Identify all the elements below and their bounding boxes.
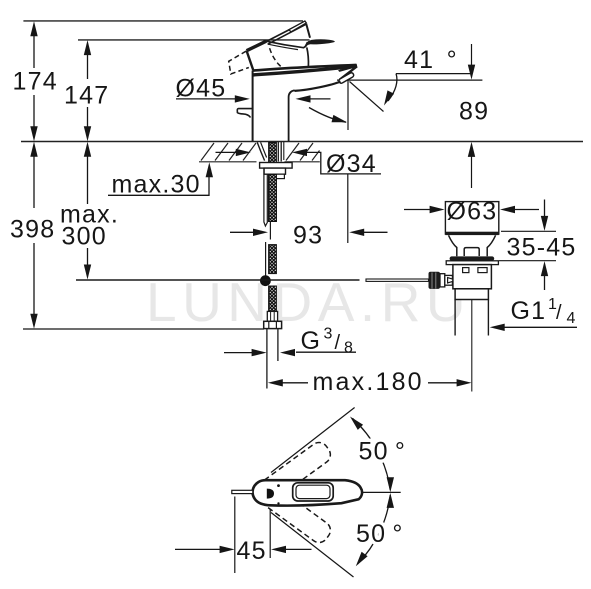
svg-text:35-45: 35-45 xyxy=(507,234,577,262)
svg-text:max.180: max.180 xyxy=(313,368,424,396)
35-45 extension bottom xyxy=(499,260,556,262)
hose end connector xyxy=(267,311,277,321)
arrow max.300 top xyxy=(84,142,91,157)
max180 dimension right xyxy=(428,382,463,384)
arrow 89 bottom xyxy=(468,142,475,157)
dia34 right shaft + notch xyxy=(306,152,382,174)
lever tip sliver xyxy=(289,21,306,32)
35-45 extension top xyxy=(501,230,556,232)
deck / counter top line xyxy=(21,141,583,143)
max180 dimension left xyxy=(276,382,308,384)
svg-text:Ø34: Ø34 xyxy=(326,150,377,178)
counter bottom line left xyxy=(199,161,257,163)
handle joint upper line xyxy=(253,65,357,71)
svg-text:41 °: 41 ° xyxy=(404,46,458,74)
top view handle body xyxy=(253,480,363,505)
drain cap bottom band xyxy=(445,232,498,235)
drain cap xyxy=(445,202,498,235)
drain neck xyxy=(449,235,496,256)
arrow dia34 right xyxy=(292,149,307,156)
handle base left edge xyxy=(247,51,254,71)
clamp pointer xyxy=(448,278,457,283)
top view pin xyxy=(232,490,253,493)
aerator capsule xyxy=(338,72,354,84)
41deg leader curve xyxy=(388,74,397,101)
arrow 45 right xyxy=(271,546,286,553)
45 extension right xyxy=(269,509,271,558)
dashed handle alternate position left xyxy=(229,51,249,74)
top view: horizontal ray xyxy=(361,491,401,493)
arrow 41deg leader xyxy=(384,90,394,105)
spout tip wedge xyxy=(338,64,357,72)
top view: upper 50 ray xyxy=(271,408,355,473)
svg-text:300: 300 xyxy=(62,223,107,251)
pop-up rod right section xyxy=(366,279,429,281)
hose core line xyxy=(269,222,271,240)
arrow G1 1/4 xyxy=(490,324,505,331)
35-45 bottom shaft xyxy=(544,275,546,291)
svg-text:4: 4 xyxy=(567,310,577,327)
45 right shaft xyxy=(285,548,312,550)
dashed handle alternate arc right xyxy=(270,48,284,69)
pop-up rod left section xyxy=(76,279,360,281)
dimension 398 line xyxy=(33,155,35,315)
41deg arc xyxy=(309,108,346,123)
45 left shaft xyxy=(175,548,222,550)
drain tailpipe walls xyxy=(454,300,456,336)
faucet body left edge xyxy=(252,71,254,142)
hex nut G3/8 xyxy=(264,321,282,328)
dimension 174 line xyxy=(33,34,35,128)
shank left bend curves xyxy=(257,142,264,160)
89 bottom shaft xyxy=(471,155,473,188)
spout underside curve xyxy=(295,82,341,91)
svg-text:Ø63: Ø63 xyxy=(447,198,498,226)
arrow 398 top xyxy=(30,142,37,157)
faucet body right edge xyxy=(289,90,295,141)
arrow 35-45 bottom xyxy=(541,261,548,276)
35-45 top shaft xyxy=(544,200,546,218)
arrow dia45 left xyxy=(235,95,250,102)
93 left shaft xyxy=(230,231,254,233)
93 right shaft xyxy=(363,231,388,233)
svg-text:G1: G1 xyxy=(511,297,547,325)
drain centerline xyxy=(471,300,473,392)
svg-text:93: 93 xyxy=(293,222,323,250)
svg-text:147: 147 xyxy=(64,82,109,110)
G3/8 left shaft xyxy=(224,352,253,354)
spout outlet extension line xyxy=(337,79,482,81)
handle base top edge xyxy=(266,41,307,48)
drain gasket bar xyxy=(450,256,495,260)
top view dark spot xyxy=(267,489,274,499)
svg-text:50 °: 50 ° xyxy=(356,520,404,548)
svg-text:89: 89 xyxy=(459,98,489,126)
arrow dia63 right xyxy=(500,206,515,213)
arrow 174 top xyxy=(30,21,37,36)
supply tube behind xyxy=(264,169,267,226)
drain flange xyxy=(446,261,498,265)
dimension 89 line top xyxy=(471,44,473,67)
svg-text:8: 8 xyxy=(344,340,354,357)
svg-text:/: / xyxy=(556,302,563,324)
svg-text:/: / xyxy=(335,332,342,354)
spout top edge xyxy=(253,66,357,75)
dia45 right shaft xyxy=(309,98,331,100)
supply tube G3/8 right wall xyxy=(277,329,279,361)
knurled adjuster knob xyxy=(429,272,441,289)
drain body lower xyxy=(455,289,488,300)
handle base right edge xyxy=(307,48,309,67)
arrow max.30 xyxy=(206,162,213,177)
pivot ball xyxy=(260,275,271,286)
arrow 398 bottom xyxy=(30,314,37,329)
svg-text:398: 398 xyxy=(10,216,55,244)
counter hatching right xyxy=(286,143,320,161)
arrow dia45 right xyxy=(296,95,311,102)
arrow G3/8 right xyxy=(280,349,295,356)
dia63 left shaft xyxy=(404,209,431,211)
lever end face xyxy=(306,24,310,38)
arrow G3/8 left xyxy=(252,349,267,356)
drain body slots xyxy=(463,268,469,273)
arrow 93 right xyxy=(349,229,364,236)
arrow dia34 left xyxy=(236,149,251,156)
45 extension left xyxy=(234,497,236,574)
supply tube G3/8 left wall xyxy=(266,329,268,389)
spout nose return edge xyxy=(340,66,357,79)
dimension 147 line xyxy=(87,53,89,128)
top view: dashed lever rotated up xyxy=(257,439,334,503)
arrow 35-45 top xyxy=(541,216,548,231)
svg-text:Ø45: Ø45 xyxy=(176,74,227,102)
arrow dia63 left xyxy=(430,206,445,213)
drain stem xyxy=(464,248,479,256)
top view: lower 50 ray xyxy=(271,513,354,578)
arrow 93 left xyxy=(253,229,268,236)
arrow 147 bottom xyxy=(84,126,91,141)
top view small dot xyxy=(277,484,280,487)
top view: dashed lever rotated down xyxy=(257,482,334,546)
arrow 45 left xyxy=(220,546,235,553)
leader max.30 underline xyxy=(108,177,209,195)
svg-text:45: 45 xyxy=(237,537,267,565)
counter hatching left xyxy=(201,143,256,161)
dimension max.300 line xyxy=(87,155,89,266)
lower 50 arc xyxy=(358,495,391,564)
arrow 41deg arc xyxy=(332,115,348,122)
braided hose mid section xyxy=(269,245,277,274)
lever rear hump xyxy=(305,39,335,47)
arrow 147 top xyxy=(84,40,91,55)
handle base front edge xyxy=(247,41,267,51)
arrow max180 left xyxy=(268,379,283,386)
arrow upper arc bottom xyxy=(387,477,394,492)
faucet side tab xyxy=(237,109,252,118)
top view lever plate xyxy=(293,483,334,501)
knob collar xyxy=(440,274,445,287)
arrow max.300 bottom xyxy=(84,265,91,280)
arrow lower arc bottom xyxy=(356,552,368,567)
lever grip top edge xyxy=(266,22,305,42)
drain body upper xyxy=(453,265,492,289)
reference line top (handle max height) xyxy=(23,20,303,22)
braided hose lower section xyxy=(269,286,277,311)
arrow 174 bottom xyxy=(30,126,37,141)
41deg vertical ray xyxy=(347,80,349,130)
upper 50 arc xyxy=(353,418,391,490)
leader dia45 underline xyxy=(176,98,236,100)
41deg diagonal ray xyxy=(350,82,384,112)
arrow upper arc top xyxy=(350,417,363,430)
shank right lines xyxy=(277,142,279,162)
svg-text:3: 3 xyxy=(324,326,334,343)
line 398 bottom reference xyxy=(23,328,264,330)
G3/8 underline xyxy=(296,351,356,353)
lock nut xyxy=(264,168,285,174)
dia63 right shaft xyxy=(513,209,539,211)
dia34 left shaft xyxy=(216,151,238,153)
counter bottom line right xyxy=(285,161,320,163)
reference line handle rest height xyxy=(78,39,310,41)
arrow lower arc top xyxy=(387,493,394,508)
braided hose upper section xyxy=(269,143,277,222)
handle base inner line xyxy=(268,44,298,49)
dia34 drop line to 93 xyxy=(347,174,349,243)
svg-text:50 °: 50 ° xyxy=(359,438,407,466)
re-draw braid over nut zone xyxy=(269,175,277,222)
arrow max180 right xyxy=(457,379,472,386)
svg-text:max.30: max.30 xyxy=(112,171,201,199)
41deg underline xyxy=(396,73,472,75)
svg-text:G: G xyxy=(301,327,322,355)
lever grip inner edge xyxy=(268,24,306,44)
svg-text:174: 174 xyxy=(13,68,58,96)
mounting flange xyxy=(260,163,293,169)
arrow 89 top xyxy=(468,65,475,80)
G1 1/4 leader xyxy=(503,326,577,328)
